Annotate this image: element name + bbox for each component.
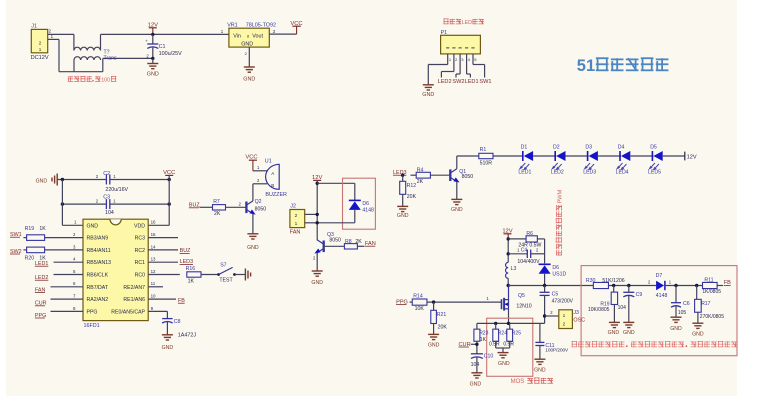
wire CUR to pin7 — [51, 298, 84, 300]
wire C6 stub — [675, 286, 677, 303]
svg-text:LED: LED — [462, 20, 473, 26]
ground left of C2 (sideways) — [56, 174, 58, 186]
resistor R20 1K — [27, 247, 45, 253]
svg-text:C3: C3 — [103, 194, 110, 200]
svg-text:D3: D3 — [585, 145, 592, 151]
wire R12 to ground — [402, 194, 404, 206]
svg-text:GND: GND — [162, 345, 174, 351]
svg-text:D4: D4 — [618, 145, 625, 151]
svg-text:GND: GND — [692, 331, 704, 337]
power port 12V (LED string) — [684, 152, 686, 161]
wire SW2 to R20 — [23, 249, 26, 251]
wire top winding to 12V rail — [100, 34, 102, 50]
wire drain rail — [508, 285, 593, 287]
wire J3 branch — [545, 315, 559, 317]
svg-text:8: 8 — [247, 34, 249, 38]
ground below VR1 — [244, 66, 255, 68]
wire VCC vertical to U2 pin16 — [168, 175, 170, 225]
wire C3 row — [62, 203, 106, 205]
svg-text:4148: 4148 — [656, 293, 668, 299]
resistor R21 20K — [431, 310, 437, 323]
wire J2 pin1 — [305, 222, 318, 224]
ground below Q2 — [247, 233, 258, 235]
svg-text:2: 2 — [39, 40, 42, 45]
svg-text:GND: GND — [241, 41, 253, 47]
wire L3 to drain node — [507, 278, 509, 285]
svg-text:Q5: Q5 — [518, 293, 525, 299]
wire 12V vertical (fan) — [316, 183, 318, 240]
wire R24/R25 join — [495, 341, 497, 348]
wire VR1 gnd pin — [248, 47, 250, 67]
wire PPG to R14 — [410, 301, 413, 303]
svg-text:D2: D2 — [553, 145, 560, 151]
svg-text:P1: P1 — [441, 30, 448, 36]
svg-text:GND: GND — [247, 245, 259, 251]
svg-text:C4: C4 — [521, 248, 528, 254]
ground below C10 — [471, 372, 482, 374]
svg-text:DC12V: DC12V — [31, 55, 49, 61]
resistor R11 1K — [703, 282, 718, 288]
svg-text:RE1/AN6: RE1/AN6 — [123, 297, 145, 303]
wire pin14 to BUZ — [148, 249, 178, 251]
svg-text:GND: GND — [498, 361, 510, 367]
svg-text:RC2: RC2 — [135, 248, 145, 254]
svg-text:GND: GND — [147, 72, 159, 78]
svg-text:BUZZER: BUZZER — [265, 192, 287, 198]
svg-text:1K/0805: 1K/0805 — [702, 289, 721, 295]
transistor Q3 8050 — [323, 241, 325, 253]
wire R7 to Q2 base — [226, 206, 247, 208]
resistor R1 510R — [479, 153, 493, 158]
resistor R7 2K — [213, 205, 226, 210]
node gate/R21 — [432, 300, 435, 303]
wire C9 to ground — [628, 296, 630, 323]
wire R4 to Q1 base — [430, 174, 449, 176]
ground below R19b — [609, 321, 620, 323]
svg-text:OSC: OSC — [573, 318, 585, 324]
resistor R6 24R — [526, 236, 537, 242]
svg-text:GND: GND — [422, 92, 434, 98]
svg-text:8050: 8050 — [255, 206, 267, 212]
ground below R12 — [397, 205, 408, 207]
resistor R24 0.5R — [493, 329, 499, 341]
ground below C11 — [534, 358, 545, 360]
resistor R14 10K — [412, 299, 427, 305]
svg-text:510R: 510R — [480, 160, 493, 166]
svg-text:LED5: LED5 — [648, 170, 661, 176]
svg-text:GND: GND — [623, 330, 635, 336]
wire C2 row — [57, 179, 106, 181]
svg-text:GND: GND — [36, 178, 48, 184]
wire pin13 to LED3 — [148, 261, 178, 263]
wire R8 to FAN label — [357, 245, 364, 247]
wire P1 pin2 — [441, 71, 454, 73]
capacitor C9 104 — [623, 291, 634, 293]
svg-text:PWM: PWM — [558, 189, 564, 203]
svg-text:LED4: LED4 — [616, 170, 629, 176]
svg-text:D6: D6 — [362, 201, 369, 207]
resistor R12 20K — [400, 181, 406, 194]
ground below P1 — [423, 84, 434, 86]
svg-text:16: 16 — [151, 220, 156, 225]
svg-text:RB6/CLK: RB6/CLK — [87, 273, 109, 279]
wire pin12 to R16 — [148, 274, 180, 276]
svg-text:LED2: LED2 — [438, 79, 452, 85]
node C9 branch — [627, 284, 630, 287]
svg-text:2K: 2K — [214, 211, 221, 217]
node C1 bottom junction — [151, 57, 154, 60]
svg-text:R11: R11 — [704, 277, 713, 283]
wire to D6 cathode — [317, 182, 355, 184]
LED D1 — [524, 151, 533, 161]
connector J2 FAN — [290, 210, 305, 228]
svg-text:PPG: PPG — [87, 309, 98, 315]
diode D6b US1D — [539, 265, 551, 274]
node R17 branch — [695, 284, 698, 287]
wire R19 to pin2 — [45, 237, 83, 239]
svg-text:78L05-TO92: 78L05-TO92 — [246, 22, 276, 28]
svg-text:13: 13 — [151, 257, 156, 262]
svg-text:270K/0805: 270K/0805 — [700, 314, 724, 320]
svg-text:0.5R: 0.5R — [503, 341, 514, 347]
wire R24 stub — [495, 323, 497, 329]
svg-text:1K: 1K — [188, 279, 195, 285]
svg-text:1: 1 — [295, 221, 298, 227]
svg-text:2: 2 — [295, 213, 298, 219]
wire P1 pin1 to ground — [428, 64, 447, 66]
mosfet Q5 12N10 — [501, 299, 503, 309]
wire LED1 to pin4 — [54, 261, 84, 263]
svg-text:RC0: RC0 — [135, 273, 145, 279]
svg-text:R12: R12 — [407, 183, 417, 189]
svg-text:12: 12 — [151, 269, 156, 274]
wire J1 pin2 to transformer — [48, 33, 74, 35]
wire C1 to bottom node — [152, 48, 154, 59]
wire P1 pin4 — [467, 73, 471, 75]
wire LED2 to pin5 — [54, 274, 84, 276]
wire pin9 to C8 — [148, 310, 167, 312]
svg-text:C9: C9 — [636, 292, 643, 298]
svg-text:RA2/AN2: RA2/AN2 — [87, 297, 109, 303]
node J2 pin1 — [316, 221, 319, 224]
capacitor C11 100P — [535, 341, 544, 343]
svg-text:T?: T? — [104, 49, 110, 55]
svg-text:RE2/AN7: RE2/AN7 — [123, 285, 145, 291]
wire CUR to R23 node — [471, 343, 477, 345]
wire C9 stub — [628, 286, 630, 293]
wire P1 pin5 — [473, 64, 485, 66]
wire Q5 drain — [508, 286, 510, 300]
resistor R23 1K — [474, 329, 480, 341]
wire Q3 base to R8 — [324, 245, 345, 247]
svg-text:1A472J: 1A472J — [178, 333, 197, 339]
wire 12V rail to C1 — [152, 34, 154, 44]
LED D2 — [556, 151, 565, 161]
regulator VR1 78L05 — [229, 28, 269, 47]
svg-text:R19: R19 — [25, 226, 35, 232]
svg-text:RB7/DAT: RB7/DAT — [87, 285, 109, 291]
switch S7 TEST — [217, 273, 220, 276]
diode D7 4148 — [656, 281, 664, 290]
svg-text:104: 104 — [105, 210, 114, 216]
svg-text:D1: D1 — [521, 145, 528, 151]
svg-text:C10: C10 — [484, 354, 494, 360]
wire D4 to D5 — [630, 155, 653, 157]
svg-text:U1: U1 — [265, 159, 272, 165]
ground below Q3 — [312, 270, 323, 272]
svg-text:R7: R7 — [213, 199, 220, 205]
wire C4 row — [508, 253, 527, 255]
svg-text:2: 2 — [563, 321, 566, 327]
node C3 right — [168, 202, 171, 205]
wire R19v stub — [613, 286, 615, 293]
wire Q5 source — [508, 309, 510, 324]
ground below C9 — [623, 321, 634, 323]
ground below R24/R25 — [498, 352, 509, 354]
svg-text:20K: 20K — [438, 325, 448, 331]
wire node to R21 — [433, 302, 435, 310]
wire buzzer pin1 — [253, 170, 267, 172]
node R6 branch — [507, 237, 510, 240]
wire D1 to D2 — [533, 155, 556, 157]
svg-text:R8: R8 — [345, 239, 352, 245]
wire Q2 emitter to ground — [252, 214, 254, 234]
capacitor C6 105 — [671, 302, 681, 304]
wire S7 to ground — [235, 274, 246, 276]
svg-text:Q2: Q2 — [255, 199, 262, 205]
svg-text:RE0/AN5/CAP: RE0/AN5/CAP — [111, 309, 145, 315]
svg-text:51: 51 — [577, 57, 595, 75]
svg-text:GND: GND — [470, 381, 482, 387]
svg-text:D7: D7 — [656, 273, 663, 279]
svg-text:J3: J3 — [573, 310, 579, 316]
resistor R4 2K — [416, 172, 430, 178]
wire 12V to node — [507, 239, 509, 263]
svg-text:C5: C5 — [552, 291, 559, 297]
svg-text:105: 105 — [678, 310, 687, 316]
resistor R25 0.5R — [507, 329, 513, 341]
wire R21 to ground — [433, 324, 435, 335]
svg-text:2K: 2K — [417, 179, 424, 185]
svg-text:VDD: VDD — [134, 223, 145, 229]
svg-text:R24: R24 — [498, 330, 507, 336]
svg-text:R25: R25 — [512, 330, 521, 336]
svg-text:GND: GND — [608, 330, 620, 336]
diode D6 4148 (flyback) — [349, 201, 361, 210]
wire R30 to D7 — [608, 285, 656, 287]
svg-text:GND: GND — [243, 76, 255, 82]
ground below R17 — [692, 322, 703, 324]
MCU U2 16FD1 — [83, 219, 148, 320]
inductor L3 — [506, 262, 509, 278]
svg-text:+: + — [145, 39, 148, 44]
svg-text:GND: GND — [670, 326, 682, 332]
transformer T? bottom winding — [74, 57, 101, 60]
capacitor C8 — [162, 318, 173, 320]
wire Q3 emitter to ground — [316, 253, 318, 271]
ground after TEST (sideways) — [244, 269, 246, 281]
svg-text:C1: C1 — [159, 44, 166, 50]
wire P1 pin3 — [456, 73, 460, 75]
wire C1 node to ground — [152, 58, 154, 63]
svg-text:100: 100 — [101, 77, 110, 83]
wire C10 to ground — [476, 357, 478, 372]
wire R6 row — [508, 238, 526, 240]
capacitor C5 473/200V — [540, 291, 550, 293]
svg-text:R16: R16 — [186, 266, 196, 272]
node C6 branch — [674, 284, 677, 287]
wire J2 pin2 — [305, 213, 318, 215]
svg-text:100u/25V: 100u/25V — [159, 51, 182, 57]
svg-text:Vout: Vout — [252, 34, 263, 40]
connector J3 OSC — [559, 310, 573, 329]
wire bottom winding to C1 — [102, 58, 104, 71]
svg-text:GND: GND — [534, 367, 546, 373]
LED D3 — [589, 151, 598, 161]
wire buzzer pin2 — [253, 183, 267, 185]
svg-text:104: 104 — [471, 362, 480, 368]
wire J1 pin1 down — [48, 38, 59, 40]
svg-text:R1: R1 — [480, 147, 487, 153]
svg-text:GND: GND — [428, 342, 440, 348]
svg-text:LED1: LED1 — [465, 79, 479, 85]
wire D3 to D4 — [598, 155, 621, 157]
svg-text:1: 1 — [563, 313, 566, 319]
svg-text:R20: R20 — [25, 255, 35, 261]
svg-text:2K: 2K — [355, 239, 362, 245]
wire R17 to ground — [697, 312, 699, 323]
wire D6b anode to rail — [544, 274, 546, 286]
connector P1 — [441, 35, 481, 54]
wire R17 stub — [696, 286, 698, 300]
wire R14 to gate — [427, 301, 502, 303]
svg-text:GND: GND — [87, 223, 99, 229]
red box around D6 — [343, 178, 376, 229]
svg-text:Vin: Vin — [233, 34, 241, 40]
svg-text:SW2: SW2 — [452, 79, 464, 85]
wire R25 stub — [509, 323, 511, 329]
svg-text:0.5R: 0.5R — [489, 341, 500, 347]
svg-text:FAN: FAN — [290, 229, 301, 235]
wire R20 to pin3 — [45, 249, 83, 251]
ground below C1 — [147, 63, 158, 65]
svg-text:10K/0805: 10K/0805 — [588, 307, 610, 313]
svg-text:MOS: MOS — [511, 379, 525, 385]
wire PPG to pin8 — [51, 310, 84, 312]
svg-text:R17: R17 — [701, 301, 710, 307]
wire Q1 collector to rail — [456, 156, 458, 169]
svg-text:Trans: Trans — [104, 56, 117, 62]
svg-text:8050: 8050 — [329, 238, 341, 244]
node 12V junction — [151, 33, 154, 36]
note button & LED board (red) — [443, 18, 448, 20]
svg-text:16FD1: 16FD1 — [84, 323, 100, 329]
node C3 left — [61, 202, 64, 205]
note PWM signal (red, vertical) — [556, 189, 563, 255]
svg-text:GND: GND — [311, 280, 323, 286]
svg-text:10: 10 — [151, 294, 156, 299]
wire pin10 to FB — [148, 298, 176, 300]
resistor R30 51K — [593, 282, 608, 288]
node C2 left — [61, 178, 64, 181]
svg-text:15: 15 — [151, 232, 156, 237]
wire left vertical to U2 pin1 — [61, 180, 63, 226]
svg-text:1: 1 — [39, 47, 42, 52]
note common-mode inductor (red) — [68, 76, 73, 78]
ground below C6 — [671, 316, 682, 318]
wire R16 to S7 — [201, 274, 219, 276]
resistor R8 2K — [344, 244, 357, 249]
node source/rail — [507, 322, 510, 325]
node CUR junction — [475, 343, 478, 346]
node C2 right — [168, 178, 171, 181]
svg-text:C2: C2 — [103, 171, 110, 177]
svg-text:R30: R30 — [586, 278, 596, 284]
svg-text:51K/1206: 51K/1206 — [602, 278, 624, 284]
buzzer U1 — [266, 164, 280, 189]
wire R1 to D1 — [493, 155, 523, 157]
svg-text:J1: J1 — [31, 24, 37, 30]
node R24 top — [494, 322, 497, 325]
wire pin11 stub — [148, 286, 163, 288]
wire Q1 emitter to ground — [456, 182, 458, 200]
svg-text:14: 14 — [151, 244, 156, 249]
node C4 branch — [507, 252, 510, 255]
wire D5 to 12V — [663, 155, 685, 157]
capacitor C4 104/400V — [526, 250, 528, 258]
transistor Q2 8050 — [245, 202, 247, 214]
svg-text:SW1: SW1 — [479, 79, 491, 85]
capacitor C1 — [147, 43, 158, 45]
svg-text:10K: 10K — [415, 306, 425, 312]
svg-text:11: 11 — [151, 281, 156, 286]
ground below R21 — [428, 333, 439, 335]
svg-text:VR1: VR1 — [227, 22, 238, 28]
svg-text:R21: R21 — [437, 312, 447, 318]
svg-text:473/200V: 473/200V — [552, 299, 574, 305]
svg-text:R4: R4 — [417, 167, 424, 173]
svg-text:D6: D6 — [552, 265, 559, 271]
transformer T? top winding — [74, 47, 101, 50]
svg-text:C6: C6 — [683, 301, 690, 307]
svg-text:B: B — [271, 183, 274, 188]
LED D5 — [653, 151, 662, 161]
red box MOS ground — [487, 318, 533, 376]
wire LED3 to R4 — [411, 174, 417, 176]
node LED3 junction — [401, 174, 404, 177]
node fan top branch — [316, 182, 319, 185]
svg-text:RB4/AN11: RB4/AN11 — [87, 248, 111, 254]
capacitor C10 104 — [471, 353, 483, 355]
svg-text:1K: 1K — [480, 337, 487, 343]
svg-text:RC1: RC1 — [135, 260, 145, 266]
wire rail to C5 — [544, 286, 546, 293]
node J3 branch — [543, 314, 546, 317]
ground below C8 — [162, 334, 173, 336]
wire C6 to ground — [675, 306, 677, 317]
node J2 pin2 — [316, 213, 319, 216]
wire Q2 collector to buzzer — [252, 184, 254, 201]
svg-text:RB3/AN9: RB3/AN9 — [87, 236, 109, 242]
resistor R16 1K — [187, 272, 201, 277]
svg-text:8050: 8050 — [462, 174, 474, 180]
svg-text:GND: GND — [451, 207, 463, 213]
node R19 branch — [612, 284, 615, 287]
svg-text:R23: R23 — [479, 330, 488, 336]
resistor R19b 10K/0805 — [611, 292, 617, 304]
wire BUZ to R7 — [200, 206, 213, 208]
svg-text:L3: L3 — [511, 266, 517, 272]
